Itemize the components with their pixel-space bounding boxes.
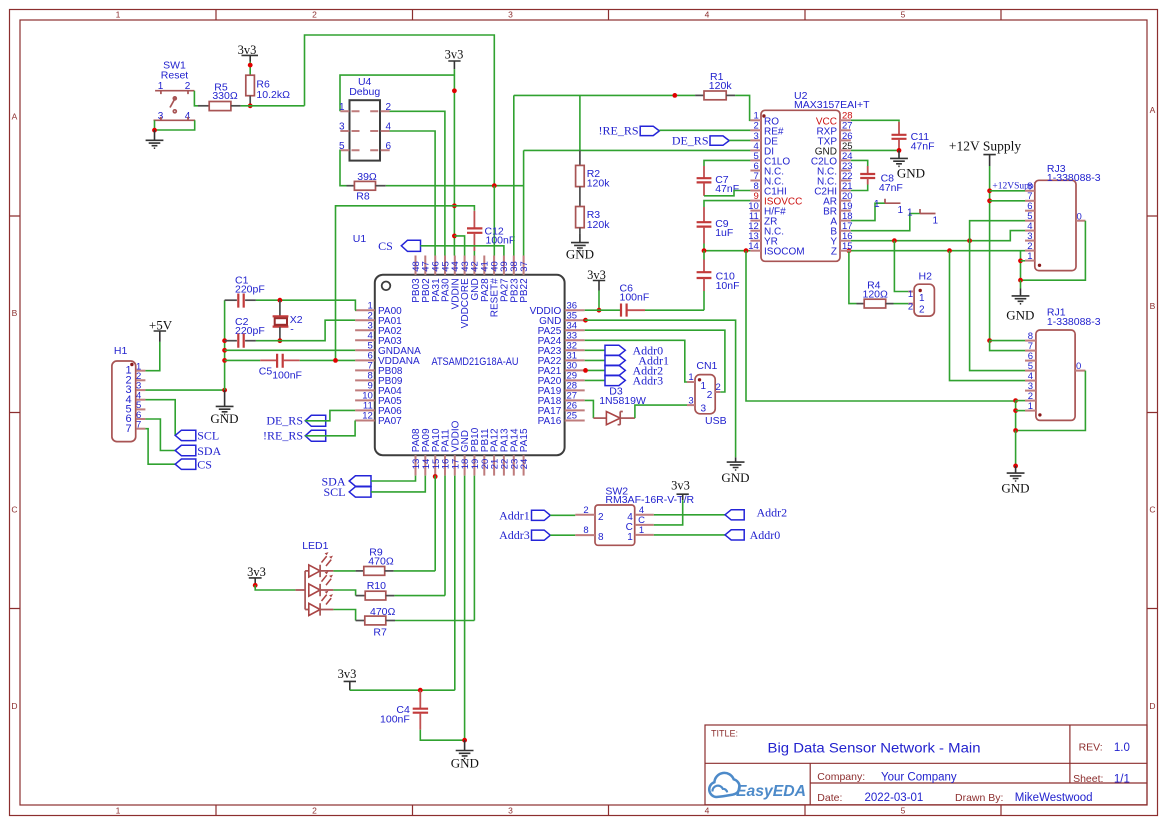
svg-text:100nF: 100nF [380, 714, 410, 726]
header H1 pin1 marker [130, 363, 133, 366]
svg-text:-: - [290, 324, 294, 336]
resistor R2 top lead [579, 150, 581, 165]
SW2 pin 2 [575, 514, 595, 516]
U2 pin 13 YR [748, 231, 778, 248]
svg-text:100nF: 100nF [486, 235, 516, 247]
svg-text:Your Company: Your Company [881, 772, 957, 784]
CN1 pin 2 [715, 391, 720, 393]
resistor R1 left lead [695, 94, 704, 96]
node R1 row stray [672, 93, 677, 98]
svg-text:C: C [1149, 505, 1155, 515]
svg-text:SDA: SDA [197, 444, 221, 458]
port SCL flag [175, 430, 196, 440]
U1 pin 29 PA20 [538, 371, 585, 388]
svg-text:ATSAMD21G18A-AU: ATSAMD21G18A-AU [432, 356, 519, 368]
wire Y to H2 pin1 [894, 241, 908, 292]
U2 pin 11 ZR [749, 211, 777, 228]
resistor R4 wire from Z [849, 251, 857, 304]
svg-text:12: 12 [362, 411, 373, 422]
svg-text:R7: R7 [373, 626, 387, 638]
RJ1 pin 6 [1025, 360, 1036, 362]
frame column ticks top [216, 10, 1001, 21]
capacitor C2 left lead [225, 340, 237, 342]
resistor R5 right lead [231, 105, 241, 107]
H1 pin3 [136, 389, 145, 391]
U1 pin 5 GNDANA [355, 341, 421, 358]
svg-text:MikeWestwood: MikeWestwood [1015, 792, 1093, 804]
svg-text:10nF: 10nF [716, 280, 740, 292]
svg-text:3v3: 3v3 [338, 667, 357, 681]
U2 pin 12 N.C. [748, 221, 784, 238]
SW2 pin 1 [635, 534, 654, 536]
svg-text:10.2kΩ: 10.2kΩ [256, 89, 290, 101]
svg-text:7: 7 [136, 420, 141, 431]
U2 pin 6 N.C. [750, 161, 784, 178]
frame column ticks bottom [216, 805, 1001, 816]
svg-text:LED1: LED1 [302, 540, 328, 552]
svg-text:GND: GND [210, 411, 238, 426]
wire DE_RS to PA06 [305, 410, 355, 420]
node RJ3 pin1 junction [1018, 258, 1023, 263]
node C4 top junction [418, 688, 423, 693]
wire +12V to RJ3 pin7 [990, 200, 1025, 202]
wire R1 row [514, 94, 695, 96]
wire +12V to RJ1 pin8 [990, 340, 1025, 342]
wire VDDIO to C4 row [454, 476, 456, 691]
U1 pin 34 PA25 [538, 320, 585, 337]
port Addr0 flag SW2 [725, 530, 744, 540]
capacitor C12 top lead [473, 211, 475, 228]
wire GND25 row [851, 149, 899, 151]
U1 pin 30 PA21 [538, 361, 585, 378]
wire C1 to PA00 [256, 300, 356, 310]
svg-text:2: 2 [598, 512, 604, 523]
resistor R2-R3 lead [579, 187, 581, 207]
wire RE_RS to PA07 [305, 421, 355, 436]
U1 pin 23 PA14 [509, 428, 520, 476]
RJ1 pin 7 [1025, 350, 1036, 352]
svg-text:1: 1 [908, 289, 913, 300]
SW2 pin 4 [635, 514, 654, 516]
capacitor C6 right lead [628, 309, 646, 311]
U2 pin 7 N.C. [750, 171, 784, 188]
supply 3v3 B bar [448, 61, 460, 69]
supply 3v3 E bar [344, 681, 356, 690]
ground GND SW1 stem [154, 130, 156, 140]
port Addr2 flag SW2 [725, 510, 744, 520]
resistor R10 right lead [386, 595, 395, 597]
resistor R7 right lead [386, 620, 395, 622]
capacitor C5 left lead [260, 359, 276, 361]
svg-text:Sheet:: Sheet: [1073, 773, 1103, 785]
svg-text:330Ω: 330Ω [212, 90, 238, 102]
SW2 pin 8 [575, 534, 595, 536]
U2 pin 16 Y [830, 231, 852, 248]
svg-text:USB: USB [705, 415, 727, 427]
svg-text:H2: H2 [919, 271, 933, 283]
H1 pin2 [136, 379, 145, 381]
title block outline [705, 725, 1147, 805]
U2 pin 10 H/F# [748, 201, 786, 218]
U2 pin 3 DE [750, 131, 778, 148]
U1 pin 12 PA07 [355, 411, 402, 428]
U1 pin 6 VDDANA [355, 351, 420, 368]
node PA10 junction [433, 474, 438, 479]
RJ3 pin 3 [1025, 240, 1035, 242]
svg-text:A: A [1150, 105, 1156, 115]
wire C7 to C1HI [704, 191, 750, 196]
svg-text:2: 2 [707, 390, 713, 401]
wire LED B to R10 [333, 590, 355, 596]
U4 pin5 [340, 149, 359, 151]
capacitor C11 top lead [898, 122, 900, 135]
wire reset top rail [305, 35, 495, 186]
capacitor C4 bottom lead [419, 713, 421, 730]
svg-text:3: 3 [508, 806, 513, 816]
capacitor C8 bottom lead [867, 178, 869, 184]
U2 pin 2 RE# [750, 121, 783, 138]
svg-text:3v3: 3v3 [445, 48, 464, 62]
wire Addr3 to SW2 pin8 [550, 534, 575, 536]
svg-text:1: 1 [688, 372, 693, 383]
wire GND18 down [464, 476, 466, 741]
node RJ1 pin1 junction [1013, 408, 1018, 413]
svg-text:47nF: 47nF [715, 183, 739, 195]
wire U4 pin4 to PA31 [390, 131, 436, 256]
port RE_RS flag left [305, 430, 326, 441]
svg-text:GND: GND [1001, 481, 1029, 496]
node +12V RJ3 pin7 [987, 198, 992, 203]
capacitor C9 top lead [703, 207, 705, 222]
U1 pin 17 VDDIO [450, 420, 461, 475]
led LED1 diode B [309, 584, 320, 596]
supply 3v3 A bar [242, 55, 259, 61]
svg-text:0: 0 [1076, 361, 1081, 372]
resistor R4 left lead [857, 303, 865, 305]
resistor R1 right lead [726, 94, 735, 96]
svg-text:TITLE:: TITLE: [711, 729, 738, 739]
U1 pin 8 PB09 [355, 371, 403, 388]
wire PB23 vertical [513, 95, 515, 255]
svg-text:47nF: 47nF [911, 141, 935, 153]
wire VDDANA row left [225, 359, 261, 361]
capacitor C11 plates [892, 135, 907, 139]
node RJ1 pin2 junction [1013, 398, 1018, 403]
H1 pin6 [136, 418, 145, 420]
wire ISOVCC to C9 [704, 201, 750, 207]
supply 3v3 C bar [593, 281, 605, 291]
svg-text:C5: C5 [259, 366, 273, 378]
capacitor C10 plates [697, 272, 712, 278]
node Y H2 branch [892, 238, 897, 243]
U1 pin 44 VDDIN [450, 256, 461, 310]
ground GND RJ1 stem [1015, 466, 1017, 473]
node GND35 junction [583, 318, 588, 323]
header U4 box [350, 100, 381, 160]
U2 pin 23 N.C. [817, 161, 853, 178]
svg-text:1-338088-3: 1-338088-3 [1047, 172, 1101, 184]
node H1 ground junction [222, 388, 227, 393]
ground GND H1 stem [224, 390, 226, 406]
svg-text:120Ω: 120Ω [863, 288, 889, 300]
U1 pin 43 VDDCORE [460, 256, 471, 329]
port SDA flag [175, 445, 196, 455]
U4 pin2 [370, 110, 390, 112]
U2 pin 15 Z [831, 241, 853, 258]
ground GND C4 bars [456, 751, 474, 759]
svg-text:CN1: CN1 [696, 360, 717, 372]
wire R5 to R6 row [241, 105, 305, 107]
RJ1 pin 1 [1025, 410, 1036, 412]
svg-text:PA15: PA15 [519, 428, 530, 452]
U1 pin 33 PA24 [538, 331, 585, 348]
node ISOCOM right junction [744, 248, 749, 253]
svg-text:Z: Z [831, 247, 837, 258]
svg-text:R8: R8 [356, 191, 370, 203]
node VDDIO36 junction [597, 308, 602, 313]
svg-text:39Ω: 39Ω [357, 171, 377, 183]
crystal X2 plates [273, 316, 289, 326]
wire VDDANA rail [336, 206, 455, 361]
capacitor C4 plates [413, 709, 428, 713]
diode D3 left lead [593, 417, 606, 419]
node RESET junction [492, 183, 497, 188]
U1 pin 19 PB10 [470, 427, 481, 475]
RJ3 pin 6 [1025, 210, 1035, 212]
ground GND RJ3 stem [1020, 280, 1022, 288]
svg-text:220pF: 220pF [235, 325, 265, 337]
header H1 box [112, 361, 136, 442]
wire R1 to RO [735, 95, 750, 120]
U1 pin 32 PA23 [538, 341, 585, 358]
svg-text:GND: GND [566, 247, 594, 262]
wire A to testpoint1 [851, 203, 885, 220]
RJ3 pin1 marker [1038, 264, 1041, 267]
svg-text:1: 1 [907, 208, 913, 219]
U2 pin 4 DI [750, 141, 774, 158]
wire 3v3 to R6 [249, 62, 251, 76]
svg-text:C: C [11, 505, 17, 515]
resistor R3 bottom lead [579, 228, 581, 234]
RJ3 pin 0 [1076, 220, 1085, 222]
svg-text:47nF: 47nF [879, 182, 903, 194]
svg-text:120k: 120k [709, 80, 733, 92]
svg-text:GND: GND [897, 166, 925, 181]
resistor R7 left lead [356, 620, 365, 622]
svg-text:14: 14 [748, 241, 759, 252]
svg-text:1: 1 [919, 293, 925, 304]
U1 pin 36 VDDIO [530, 300, 585, 317]
capacitor C12 plates [467, 228, 482, 232]
led LED1 arrows C [322, 595, 332, 605]
U2 pin 26 TXP [818, 131, 853, 148]
CN1 pin1 marker [698, 378, 701, 381]
svg-text:2: 2 [312, 806, 317, 816]
U1 pin 47 PB02 [421, 256, 432, 303]
ground GND H1 bars [216, 406, 234, 414]
U1 pin 31 PA22 [538, 351, 585, 368]
svg-text:DE_RS: DE_RS [266, 414, 303, 428]
node VDDCORE junction [452, 234, 457, 239]
port DE_RS flag right [710, 136, 729, 145]
wire 3v3 B down to VDDIN [453, 69, 455, 255]
port Addr2 flag [605, 365, 625, 375]
node Z R4 branch [847, 248, 852, 253]
capacitor C4 top lead [419, 690, 421, 708]
H1 pin5 [136, 408, 145, 410]
wire +12V to RJ1 pin7 [990, 341, 1025, 351]
wire H1 pin6 to SDA [145, 419, 175, 451]
RJ3 pin 5 [1025, 220, 1035, 222]
wire C4 to GND row [420, 730, 464, 740]
svg-text:1: 1 [898, 205, 904, 216]
ground GND R3 stem [579, 233, 581, 242]
wire ISOCOM to RJ1 row [746, 251, 1016, 401]
U2 pin 21 C2HI [814, 181, 852, 198]
ground GND U2 bars [890, 158, 908, 166]
capacitor C1 plates [238, 294, 243, 308]
RJ1 pin 5 [1025, 370, 1036, 372]
wire Z branch to RJ1 pin4 [950, 251, 1026, 381]
U1 pin 3 PA02 [355, 320, 402, 337]
wire C2 to PA01 [256, 320, 355, 341]
node ISOCOM left junction [702, 248, 707, 253]
svg-text:D: D [1149, 701, 1155, 711]
U2 pin 22 N.C. [817, 171, 853, 188]
node X2 bottom junction [278, 338, 283, 343]
resistor R3 body [576, 207, 585, 228]
svg-text:2: 2 [583, 505, 588, 516]
U1 pin 15 PA10 [431, 428, 442, 476]
node X2 top junction [278, 298, 283, 303]
ground GND C4 stem [464, 740, 466, 750]
wire RE_RS to RE# [659, 129, 750, 131]
switch SW1 bottom bar [154, 117, 196, 120]
transceiver U2 body [761, 110, 840, 261]
wire PA21 to Addr1 [585, 359, 605, 361]
svg-text:220pF: 220pF [235, 284, 265, 296]
U2 pin 28 VCC [816, 111, 853, 128]
U1 pin 18 GND [460, 430, 471, 476]
port CS flag [401, 240, 420, 251]
resistor R9 left lead [356, 570, 364, 572]
wire Z row [849, 250, 1025, 252]
connector CN1 body [695, 375, 715, 414]
svg-text:5: 5 [901, 806, 906, 816]
ground GND R3 bars [571, 243, 589, 251]
easyeda logo cloud [709, 773, 739, 797]
mcu U1 body [375, 275, 565, 455]
wire C5 to VDDANA [300, 359, 355, 361]
U2 pin 5 C1LO [750, 151, 790, 168]
resistor R9 body [364, 567, 385, 576]
U1 pin 1 PA00 [355, 300, 402, 317]
wire C10 top lead green [703, 251, 705, 260]
wire R4 to H2 pin2 [894, 303, 909, 305]
crystal X2 body [275, 318, 287, 325]
wire H1 pin3 to ground [145, 389, 224, 391]
svg-text:2: 2 [312, 10, 317, 20]
wire VDDIO36 row [585, 309, 620, 311]
capacitor C5 plates [277, 354, 283, 368]
svg-text:B: B [12, 308, 18, 318]
svg-text:1: 1 [639, 525, 644, 536]
diode D3 triangle [606, 412, 620, 425]
svg-text:1: 1 [874, 199, 880, 210]
supply +12V bar [983, 155, 995, 166]
U1 pin 28 PA19 [538, 381, 585, 398]
svg-text:24: 24 [519, 459, 530, 470]
svg-text:Company:: Company: [817, 771, 865, 783]
svg-text:MAX3157EAI+T: MAX3157EAI+T [794, 99, 870, 111]
resistor R8 right lead [376, 185, 386, 187]
svg-text:8: 8 [583, 525, 588, 536]
ground GND35 bars [727, 462, 745, 470]
wire RJ1 gnd down [1015, 431, 1017, 466]
ground GND U2 stem [898, 150, 900, 158]
node C2 left junction [222, 338, 227, 343]
resistor R8 body [354, 181, 375, 190]
svg-text:2022-03-01: 2022-03-01 [865, 792, 924, 804]
wire SW2 pin4 to Addr2 [654, 514, 725, 516]
wire ISOCOM row [704, 250, 750, 252]
diode D3 right lead [620, 417, 635, 419]
svg-text:15: 15 [842, 241, 853, 252]
port Addr0 flag [605, 345, 625, 355]
U1 pin 37 PB22 [519, 256, 530, 303]
frame row ticks left [10, 216, 21, 609]
svg-text:3: 3 [339, 122, 345, 133]
svg-text:5: 5 [901, 10, 906, 20]
U1 pin 22 PA13 [500, 428, 511, 476]
port DE_RS flag left [305, 415, 326, 426]
svg-text:CS: CS [197, 458, 212, 472]
U4 pin6 [370, 149, 390, 151]
wire PA10 to R9 [434, 476, 436, 571]
U4 pin4 [370, 130, 390, 132]
resistor R6 bottom lead [249, 96, 251, 106]
svg-text:120k: 120k [587, 219, 611, 231]
capacitor C7 top lead [703, 166, 705, 178]
wire PA19 to Addr3 [585, 379, 605, 381]
wire C8 to C2HI [851, 185, 868, 191]
resistor R9 right lead [385, 570, 394, 572]
wire RJ3 pin0 to gnd [1021, 221, 1086, 281]
U1 pin 48 PB03 [411, 256, 422, 303]
wire 3v3 E to VDDIO [350, 689, 455, 691]
U1 pin 16 PA11 [441, 429, 452, 476]
node +12V RJ3 pin8 [987, 188, 992, 193]
wire RJ1 pin1 stub link [1016, 410, 1025, 412]
ground GND35 stem [735, 457, 737, 462]
U2 pin 8 C1HI [750, 181, 786, 198]
svg-text:3: 3 [508, 10, 513, 20]
wire RJ1 pin0 to gnd [1016, 371, 1086, 431]
svg-text:Addr3: Addr3 [633, 374, 664, 388]
U1 pin 39 PA27 [499, 256, 510, 303]
resistor R1 body [704, 91, 726, 100]
U1 pin 20 PB11 [480, 428, 491, 476]
wire H1 pin4 to SCL [145, 400, 175, 436]
svg-text:3v3: 3v3 [671, 479, 690, 493]
wire SCL to PA09 [371, 476, 425, 492]
wire PA18 to D3 [585, 400, 594, 418]
svg-text:EasyEDA: EasyEDA [736, 783, 806, 800]
node RJ3 gnd junction [1018, 278, 1023, 283]
U4 pin1 [340, 110, 359, 112]
crystal X2 top lead [279, 300, 281, 316]
U2 pin1 marker [762, 114, 765, 117]
